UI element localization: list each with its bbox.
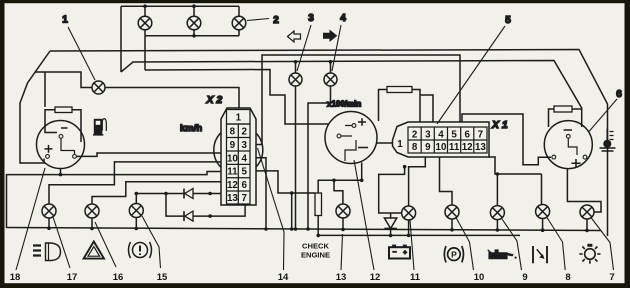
wire: top lamp bus lower [145,36,239,70]
svg-text:1: 1 [236,113,242,124]
svg-text:9: 9 [522,272,527,283]
label 8 leader [547,218,565,271]
wire: lamp16 to diode input [136,194,166,204]
wire: fuel resistor leads [45,72,81,142]
label 12 leader [354,160,374,270]
speedometer gauge body [214,126,263,175]
lamp 7 [580,205,594,219]
diode VD1 [166,189,223,199]
label 3 leader [297,25,311,71]
wire: X2 row10 right down to bus [256,158,266,229]
label 14 leader [258,148,285,270]
arrow left (outline) [288,31,301,42]
svg-text:10: 10 [227,153,238,164]
X2 pin numbers [227,113,248,205]
svg-text:10: 10 [474,272,485,283]
connector X2 cells [227,110,251,205]
temp gauge body [544,121,592,169]
wire: lamp4 down staircase [308,86,331,229]
connector X2 outer [221,108,256,205]
label 2 leader [247,19,269,21]
tachometer internals [337,118,368,161]
wire: lamp8 bottom [542,219,544,231]
svg-text:X 1: X 1 [491,119,508,131]
lamp 11 (battery) [402,206,416,220]
svg-text:12: 12 [227,180,238,191]
junction dot lamp9 feed [496,172,500,176]
wire: fuel bottom to harness [60,169,62,175]
wire: tacho bottom lead [318,163,362,194]
svg-text:CHECK: CHECK [302,242,330,251]
icon 7 bulb [579,244,600,264]
label 15 leader [142,216,161,268]
svg-text:14: 14 [278,272,289,283]
wire: temp resistor leads [549,109,582,127]
lamp 9 (oil) [490,206,504,220]
wire: staircase to lamp8/temp [462,114,551,165]
svg-text:15: 15 [157,272,168,283]
svg-text:18: 18 [10,272,21,283]
wire: lamp1 right to X2 pin1 [105,88,239,109]
svg-text:2: 2 [241,127,247,138]
icon 8 [533,246,547,263]
svg-text:12: 12 [370,272,381,283]
label 11 leader [410,220,414,270]
wire: fuel output right to X2 row9 [77,153,223,156]
svg-text:10: 10 [436,142,447,153]
svg-text:1: 1 [62,15,68,26]
svg-text:16: 16 [113,272,124,283]
fuel gauge internals [45,128,77,158]
wire: X2 row11 right to check resistor line [256,171,315,193]
bottom labels [10,272,615,283]
label CHECK ENGINE [301,242,330,260]
lamp 2c [232,6,246,36]
fuel gauge U5 body [37,121,85,169]
wire: lamp3 down [295,86,297,229]
svg-text:2: 2 [273,15,279,26]
wire: top lamp bus upper [121,6,239,72]
label 16 leader [95,222,116,267]
lamp 1 [92,81,105,94]
icon 9 oil [488,249,517,258]
lamp 17 (hazard) [85,204,99,218]
lamp 13 (check engine) [336,204,350,218]
lamp 10 (parking brake) [445,205,459,219]
wire: branch to battery diode [379,167,405,213]
cluster body outline [20,50,608,237]
wire: lamp9 bottom [496,220,498,230]
svg-text:11: 11 [227,167,238,178]
lamp 18 (lights on) [42,204,56,218]
svg-text:11: 11 [410,272,421,283]
connector X1 outer [393,122,490,157]
lamp 4 [324,62,337,87]
junction dots top buses [143,4,196,37]
wire: lamp1 left to body edge [36,72,93,88]
junction dots battery branch [360,165,407,182]
thermometer icon [600,129,616,152]
resistor (above X1) [379,87,434,123]
junction dots bus [47,173,589,237]
lamp 16 (brake) [129,204,143,218]
wire: X1 to lamp11 [409,157,426,206]
svg-text:12: 12 [462,142,473,153]
junction dots middle [290,191,294,195]
diode VD3 (battery lamp) [384,213,396,235]
wire: harness B (to tachometer) [145,70,329,125]
wire: lower line y235 [318,234,520,236]
wire: harness C (X2 pin3 over to X1 top) [256,55,460,145]
svg-text:7: 7 [478,130,484,141]
label 4 leader [332,25,341,71]
icon 17 hazard [84,242,104,259]
wire: harness A (top long line to temp gauge) [121,61,582,128]
junction dots lamps 3 4 [294,60,333,64]
wire: lamp11 bottom [408,220,410,235]
svg-text:3: 3 [308,13,314,24]
svg-text:13: 13 [475,142,486,153]
svg-text:13: 13 [227,193,238,204]
svg-text:7: 7 [241,193,247,204]
wire: vertical at 291.7 [291,193,293,229]
connector X1 cells [408,127,487,153]
junction dot branch [332,179,336,183]
svg-text:13: 13 [336,272,347,283]
wire: lamp17 staircase to X2 row12 [92,182,223,204]
X1 pin numbers [397,130,486,154]
label 13 leader [341,234,343,270]
wire: branch to lamp13 [334,180,343,204]
svg-text:ENGINE: ENGINE [301,251,330,260]
svg-text:4: 4 [438,130,444,141]
svg-text:P: P [451,250,457,260]
svg-text:7: 7 [609,272,614,283]
svg-text:5: 5 [241,167,247,178]
svg-text:8: 8 [412,142,418,153]
label 18 leader [16,168,45,270]
wire: lamp17 bottom [91,218,93,228]
svg-text:5: 5 [505,15,511,26]
svg-text:3: 3 [241,140,247,151]
wire: lamp18 bottom [48,218,50,228]
svg-text:X 2: X 2 [206,94,223,106]
arrow right (filled) [324,31,337,41]
icon 16 brake [129,242,152,258]
svg-text:2: 2 [412,130,418,141]
wire: far-left vertical + y175 line to X2 row11 [7,172,223,229]
lamp 2b [187,6,201,36]
svg-text:6: 6 [241,180,247,191]
label 10 leader [456,218,474,271]
fuel pump icon [93,119,106,135]
diode VD2 [184,203,245,221]
resistor (fuel gauge) [55,107,72,113]
wire: X1 corner to lamps 9 and 8 [489,157,542,206]
svg-text:6: 6 [616,89,622,100]
wire: X1 to lamp10 [440,157,453,205]
junction dots diodes [135,192,212,218]
icon 10 parking brake [444,246,463,262]
icon 11 battery [389,245,410,259]
svg-text:11: 11 [449,142,460,153]
label 17 leader [53,217,70,268]
wire: bottom bus [7,228,602,231]
label 9 leader [502,219,522,270]
svg-text:8: 8 [230,127,236,138]
svg-text:4: 4 [241,153,247,164]
lamp 2a [138,6,152,36]
svg-text:8: 8 [565,272,570,283]
resistor (temp gauge) [554,106,572,112]
svg-text:6: 6 [464,130,470,141]
resistor (check engine lamp) [315,193,322,235]
label 5 leader [437,26,505,124]
lamp 3 [289,62,302,87]
wire: lamp10 bottom [451,219,453,230]
temp gauge internals [552,130,587,168]
wire: lamp16 bottom [135,218,137,229]
icon 18 lights [33,243,61,261]
svg-text:9: 9 [230,140,236,151]
svg-text:17: 17 [67,272,78,283]
svg-text:3: 3 [425,130,431,141]
wire: lamp18 staircase to X2 row10 [49,162,223,204]
wire: tacho right to X1 tip [377,142,392,144]
tachometer gauge body [325,112,377,164]
label 1 leader [68,27,95,80]
svg-text:9: 9 [425,142,431,153]
lamp 8 [536,205,550,219]
wire: diode branch vertical [166,194,184,217]
label 6 leader [589,99,617,132]
svg-text:1: 1 [397,139,403,150]
svg-text:km/h: km/h [180,123,202,134]
svg-text:x100/min: x100/min [327,100,361,109]
svg-text:4: 4 [340,13,346,24]
svg-text:5: 5 [451,130,457,141]
label 7 leader [591,218,614,271]
wire: lamp7 bottom/side [567,169,601,231]
wire: lamp13 bottom [342,218,344,229]
